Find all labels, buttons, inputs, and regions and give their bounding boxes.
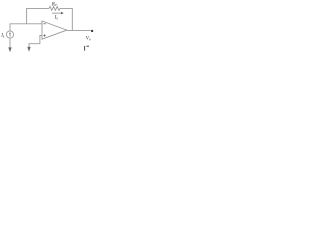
svg-text:Vo: Vo (86, 36, 91, 42)
svg-text:Is: Is (54, 15, 59, 21)
svg-text:RF: RF (51, 1, 58, 7)
svg-text:Is: Is (0, 34, 5, 39)
